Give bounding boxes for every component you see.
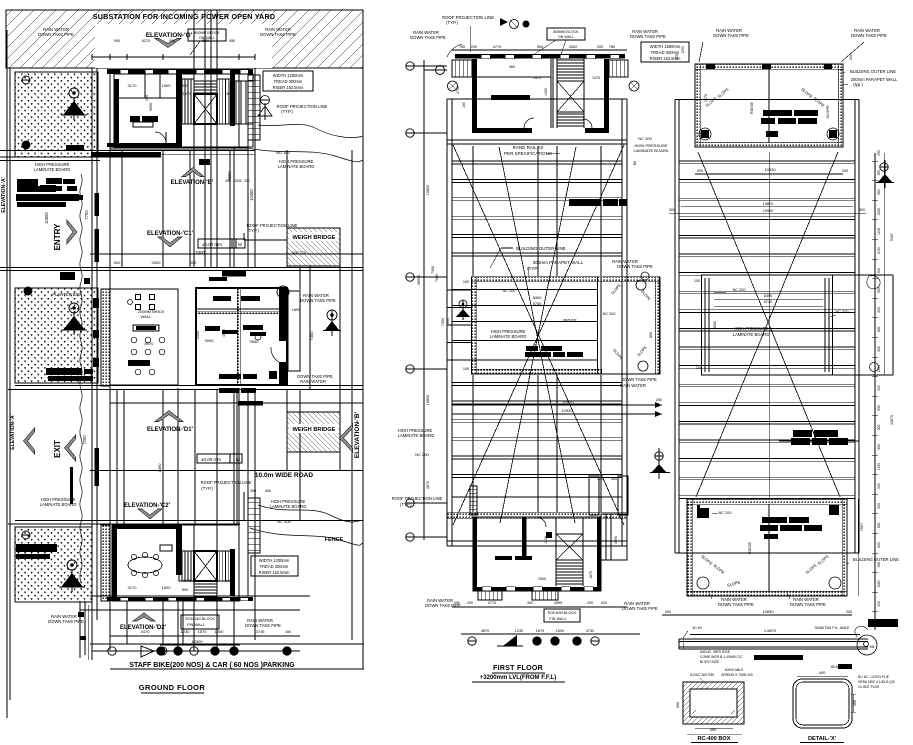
ff bottom room stair shaft	[556, 534, 583, 560]
stair data box bottom right	[251, 556, 298, 576]
svg-text:EXIT: EXIT	[53, 440, 62, 458]
svg-text:200: 200	[842, 169, 848, 173]
svg-text:10460: 10460	[249, 189, 254, 201]
planter P3 tree	[67, 560, 77, 570]
first floor louver lines lower	[452, 382, 622, 384]
right top room wall black marks	[706, 64, 715, 69]
svg-text:7300: 7300	[431, 266, 435, 274]
svg-text:1550: 1550	[877, 365, 881, 373]
svg-text:WIDTH 1200mm: WIDTH 1200mm	[273, 73, 304, 78]
svg-text:PLANTER BOX: PLANTER BOX	[52, 292, 82, 297]
ff left corner strip	[470, 486, 477, 515]
svg-text:300: 300	[190, 260, 197, 265]
black rect below entry	[60, 272, 75, 280]
svg-text:4870: 4870	[481, 629, 489, 633]
black bar above weigh bridge 2	[238, 401, 263, 406]
svg-text:500: 500	[114, 260, 121, 265]
first floor louver lines upper	[452, 160, 622, 162]
svg-text:AIB NC. WER RISE: AIB NC. WER RISE	[700, 650, 731, 654]
NC bar right of P1	[66, 145, 84, 151]
svg-text:DOWN TAKE PIPE: DOWN TAKE PIPE	[38, 32, 74, 37]
ff bottom room door arc	[536, 517, 546, 527]
elevation B' arrow	[340, 424, 353, 452]
top room stair shaft	[194, 94, 217, 124]
svg-text:10830: 10830	[764, 167, 776, 172]
svg-text:10600: 10600	[44, 212, 49, 224]
roof projection curve top	[258, 124, 363, 137]
site line y403	[110, 402, 363, 404]
north arrow bottom	[141, 646, 154, 657]
right plan centre vertical line	[768, 152, 770, 499]
ff rain pipe circle middle room corner	[641, 272, 649, 280]
svg-text:BLI NC. LATEN PLIE: BLI NC. LATEN PLIE	[858, 675, 890, 679]
roof projection marker circled	[261, 96, 270, 105]
bike parking strip below top room	[110, 147, 248, 149]
svg-text:DOWN TAKE PIPE: DOWN TAKE PIPE	[630, 34, 666, 39]
svg-text:DOWN TAKE PIPE: DOWN TAKE PIPE	[790, 602, 826, 607]
svg-text:(TYP.): (TYP.)	[446, 20, 458, 25]
svg-text:7200: 7200	[82, 435, 87, 445]
svg-text:7300: 7300	[441, 318, 445, 326]
right top room black bar cluster	[763, 110, 792, 116]
svg-text:400: 400	[819, 670, 826, 675]
svg-text:500: 500	[676, 702, 680, 708]
long section right circle	[857, 635, 877, 655]
roof projection curves lower	[258, 505, 363, 522]
left grid bubble symbol for right plan	[880, 163, 888, 171]
right ladder strip	[248, 75, 260, 140]
svg-text:BUILDING OUTER LINE: BUILDING OUTER LINE	[850, 69, 896, 74]
mid block top bars	[222, 271, 246, 277]
ff circled-x right	[629, 81, 639, 91]
svg-text:FIRST FLOOR: FIRST FLOOR	[493, 665, 543, 672]
weigh bridge box 1	[287, 228, 340, 266]
office chairs and tables upper	[136, 295, 141, 300]
ff left grid bubbles	[406, 62, 414, 70]
right middle box inner verticals	[704, 278, 706, 372]
facade black bar at x95 lower	[95, 448, 100, 486]
svg-text:ROOF PROJECTION LINE: ROOF PROJECTION LINE	[392, 496, 443, 501]
svg-text:DOWN TAKE PIPE: DOWN TAKE PIPE	[48, 619, 84, 624]
svg-text:300: 300	[877, 150, 881, 156]
svg-text:100: 100	[696, 366, 702, 370]
svg-text:160: 160	[285, 630, 291, 634]
svg-text:1500: 1500	[538, 577, 546, 581]
top room outer walls	[107, 69, 253, 74]
svg-text:4770: 4770	[493, 45, 501, 49]
svg-text:±0.00 mm: ±0.00 mm	[201, 457, 221, 462]
elevation C2 arrow	[138, 509, 162, 519]
svg-text:4000: 4000	[222, 329, 226, 337]
svg-text:13920: 13920	[562, 399, 574, 404]
right middle box circle	[870, 363, 879, 372]
svg-text:800: 800	[877, 542, 881, 548]
svg-text:OL BNT PLOE: OL BNT PLOE	[858, 685, 880, 689]
svg-text:TREAD 300mm: TREAD 300mm	[274, 79, 303, 84]
svg-text:500: 500	[181, 83, 188, 88]
svg-text:DOWN TAKE PIPE: DOWN TAKE PIPE	[260, 32, 296, 37]
svg-text:300: 300	[877, 268, 881, 274]
svg-text:SODIUM BLOCK: SODIUM BLOCK	[547, 611, 577, 615]
svg-text:200: 200	[846, 610, 852, 614]
svg-text:ELEVATION-'C1': ELEVATION-'C1'	[147, 231, 194, 237]
svg-text:1000: 1000	[234, 179, 242, 183]
svg-text:6390: 6390	[764, 294, 772, 298]
svg-text:3170: 3170	[128, 585, 138, 590]
ff stair data box right	[641, 42, 689, 62]
svg-text:7667: 7667	[860, 523, 864, 531]
svg-text:A560: A560	[533, 296, 542, 300]
svg-text:1550: 1550	[877, 208, 881, 216]
mid block right rooms outline	[196, 288, 287, 385]
long section black blob right	[868, 619, 898, 627]
svg-text:800MM BLOCK: 800MM BLOCK	[553, 30, 579, 34]
long section detail bar	[679, 638, 868, 640]
window gaps bottom wall	[120, 598, 128, 601]
grid bubble left P1a	[22, 76, 30, 84]
ff middle room divider	[597, 277, 599, 374]
svg-text:300: 300	[597, 477, 603, 481]
svg-text:1100: 1100	[877, 247, 881, 254]
svg-text:3730: 3730	[586, 629, 594, 633]
ff top room stair shaft	[557, 81, 584, 112]
svg-text:3000: 3000	[205, 338, 215, 343]
svg-text:1500: 1500	[162, 83, 172, 88]
svg-text:BI 5TH SIZE: BI 5TH SIZE	[700, 660, 720, 664]
mid rooms inner dotted walls	[237, 288, 241, 385]
svg-text:WIDTH 1200mm: WIDTH 1200mm	[259, 558, 290, 563]
svg-text:SLOPE: SLOPE	[825, 105, 830, 119]
svg-text:NO 300: NO 300	[276, 150, 291, 155]
svg-text:300: 300	[527, 601, 533, 605]
svg-text:10600: 10600	[426, 395, 430, 406]
svg-text:1600: 1600	[162, 585, 172, 590]
planter P2 tree	[69, 303, 79, 313]
svg-text:1200: 1200	[681, 46, 685, 54]
black rect above elevation B	[199, 159, 210, 165]
svg-text:RIDGE: RIDGE	[750, 102, 754, 114]
bottom room stair right treads	[217, 551, 231, 581]
ff north arrow bottom	[503, 635, 517, 646]
top room interior partition lines	[119, 97, 176, 99]
svg-text:780: 780	[609, 45, 615, 49]
right bottom room corner pipes	[697, 577, 709, 589]
first floor big X diagonals	[453, 145, 624, 525]
svg-text:160: 160	[462, 102, 466, 108]
svg-text:9750: 9750	[533, 302, 541, 306]
ff top room inner wall	[550, 58, 552, 128]
svg-text:100: 100	[694, 279, 700, 283]
ff middle room inner lines	[452, 289, 597, 291]
svg-text:1475: 1475	[225, 579, 233, 583]
svg-text:DOWN TAKE PIPE: DOWN TAKE PIPE	[621, 377, 657, 382]
ff top room window gaps	[481, 55, 490, 59]
svg-text:13870: 13870	[763, 202, 774, 206]
svg-text:475: 475	[226, 92, 232, 96]
facade black marks mid block	[93, 298, 99, 308]
svg-text:7000: 7000	[446, 318, 450, 326]
svg-text:300M RAI FIL. ABLE: 300M RAI FIL. ABLE	[814, 626, 849, 630]
ff tree symbol left of middle room	[459, 300, 467, 308]
svg-text:HEBU NRC 4 100LB Q/E: HEBU NRC 4 100LB Q/E	[858, 680, 896, 684]
first floor louver frame	[446, 99, 448, 546]
svg-text:(TYP.): (TYP.)	[201, 486, 213, 491]
svg-text:800: 800	[877, 424, 881, 430]
svg-text:36940: 36940	[417, 275, 421, 286]
svg-text:WIDTH 1500mm: WIDTH 1500mm	[650, 44, 681, 49]
svg-text:3470: 3470	[704, 94, 708, 102]
svg-text:NC 200: NC 200	[415, 452, 429, 457]
right side dim chain	[874, 153, 876, 630]
sodium block fin wall box	[181, 615, 219, 629]
svg-text:ELEVATION-'B': ELEVATION-'B'	[171, 180, 214, 186]
black text-bar cluster B	[46, 368, 82, 375]
grid bubble left P3	[22, 531, 30, 539]
right boundary of ground floor plan	[362, 68, 364, 669]
top room stair right treads	[217, 79, 231, 124]
svg-text:DOWN TAKE PIPE: DOWN TAKE PIPE	[851, 33, 887, 38]
svg-text:33870: 33870	[890, 415, 894, 425]
svg-text:900 775: 900 775	[292, 251, 306, 255]
svg-text:350: 350	[225, 179, 231, 183]
black text-bar cluster A	[17, 179, 38, 192]
RC-400 BOX detail	[683, 682, 744, 724]
svg-text:DOWN TAKE PIPE: DOWN TAKE PIPE	[713, 33, 749, 38]
svg-text:300: 300	[859, 208, 865, 212]
svg-text:RISER 152.5mm: RISER 152.5mm	[273, 85, 304, 90]
elevation D2 label	[133, 613, 155, 621]
svg-text:GROUND FLOOR: GROUND FLOOR	[139, 683, 206, 692]
svg-text:200: 200	[665, 610, 671, 614]
svg-text:BUILDING OUTER LINE: BUILDING OUTER LINE	[853, 557, 899, 562]
svg-text:TREAD 300mm: TREAD 300mm	[260, 564, 289, 569]
ff sodium block fin wall box	[544, 609, 580, 622]
svg-text:5187: 5187	[890, 233, 894, 241]
right bottom room black bar cluster	[762, 517, 787, 523]
svg-text:500: 500	[182, 588, 188, 592]
svg-text:DOWN TAKE PIPE: DOWN TAKE PIPE	[245, 623, 281, 628]
svg-text:7000: 7000	[435, 274, 439, 282]
svg-text:ELEVATION-'O': ELEVATION-'O'	[146, 32, 193, 39]
svg-text:RIDGE: RIDGE	[748, 542, 752, 554]
ff bottom stair treads	[556, 562, 583, 564]
svg-text:LAMINATE BOARD: LAMINATE BOARD	[270, 504, 307, 509]
svg-text:COME WER B 1-40MM C/C: COME WER B 1-40MM C/C	[700, 655, 743, 659]
svg-text:NC 200: NC 200	[836, 310, 849, 314]
svg-text:LAMINATE BOARD: LAMINATE BOARD	[733, 332, 770, 337]
svg-text:RC-400 BOX: RC-400 BOX	[698, 736, 731, 742]
top room stair treads left	[179, 79, 194, 124]
svg-text:13300: 13300	[191, 639, 203, 644]
svg-text:(TYP): (TYP)	[527, 266, 539, 271]
svg-text:1475: 1475	[592, 76, 600, 80]
ff top markers	[500, 18, 508, 26]
mid room furniture bars	[213, 296, 231, 301]
right plan louver lines	[679, 160, 855, 162]
svg-text:200: 200	[597, 45, 603, 49]
svg-text:NC 300: NC 300	[277, 519, 291, 524]
svg-text:lvl: lvl	[238, 242, 242, 247]
svg-text:950: 950	[877, 346, 881, 352]
right middle open box	[702, 275, 833, 375]
svg-text:200: 200	[849, 54, 853, 60]
svg-text:BUILDING OUTER LINE: BUILDING OUTER LINE	[516, 246, 566, 251]
svg-text:+3200mm LVL(FROM F.F.L): +3200mm LVL(FROM F.F.L)	[480, 675, 556, 681]
ff stair treads above	[557, 59, 584, 61]
planter box P3	[15, 527, 92, 602]
bottom room stair treads left	[179, 551, 194, 581]
svg-text:M6: M6	[870, 645, 875, 649]
svg-text:950: 950	[877, 522, 881, 528]
bottom room treads below shaft	[194, 581, 217, 597]
svg-text:3300: 3300	[152, 260, 162, 265]
svg-text:4470: 4470	[141, 629, 151, 634]
svg-text:ELEVATION-'A': ELEVATION-'A'	[10, 414, 16, 450]
mid room bottom bars	[219, 374, 241, 379]
top room door arc	[155, 132, 166, 143]
svg-text:FIN WALL: FIN WALL	[549, 617, 566, 621]
svg-text:4750: 4750	[456, 86, 460, 94]
svg-text:DOWN TAKE PIPE: DOWN TAKE PIPE	[718, 602, 754, 607]
svg-text:1675: 1675	[589, 571, 593, 579]
ff 800mm block box	[547, 28, 585, 40]
black bar cluster C on planter	[16, 544, 57, 552]
long section black bar below	[754, 655, 803, 660]
ff middle room side circles	[636, 280, 646, 290]
svg-text:ELEVATION-'A': ELEVATION-'A'	[1, 177, 7, 213]
svg-text:6270: 6270	[142, 39, 150, 43]
weigh bridge box 2	[287, 412, 340, 452]
svg-text:10600: 10600	[426, 185, 430, 196]
svg-text:LAMINATE BOARD: LAMINATE BOARD	[40, 502, 77, 507]
ENTRY arrow	[67, 220, 77, 244]
main vertical grid lines ground floor	[91, 68, 93, 660]
svg-text:1230: 1230	[181, 629, 191, 634]
svg-text:10.0m WIDE ROAD: 10.0m WIDE ROAD	[255, 472, 313, 479]
svg-text:(typ.): (typ.)	[853, 82, 863, 87]
svg-text:85 400: 85 400	[831, 665, 841, 669]
svg-text:LAMINATE BOARD: LAMINATE BOARD	[398, 433, 435, 438]
right plan big X diagonal	[698, 152, 840, 497]
svg-text:1855: 1855	[292, 308, 300, 312]
svg-text:1550: 1550	[877, 580, 881, 588]
svg-text:3170: 3170	[128, 83, 138, 88]
svg-text:500: 500	[669, 208, 675, 212]
svg-text:RAND RAIL AS: RAND RAIL AS	[513, 145, 544, 150]
svg-text:WEIGH BRIDGE: WEIGH BRIDGE	[293, 235, 336, 241]
bottom room outer walls	[112, 525, 239, 601]
svg-text:NC 200: NC 200	[638, 136, 652, 141]
right top room walls dotted	[695, 64, 843, 147]
bottom room small rect	[160, 545, 172, 551]
right bottom room walls	[687, 499, 847, 596]
ff bottom room walls	[473, 517, 601, 591]
svg-text:200: 200	[471, 45, 477, 49]
stair data box top right	[263, 71, 313, 91]
grid bubble left P1b	[22, 141, 30, 149]
svg-text:LAMINATE BOARD: LAMINATE BOARD	[633, 148, 668, 153]
substation open yard hatched band	[6, 10, 363, 68]
svg-text:100: 100	[463, 280, 469, 284]
ff bottom grid bubbles	[468, 637, 476, 645]
svg-text:1400: 1400	[544, 536, 548, 544]
svg-text:1475: 1475	[183, 579, 191, 583]
right ladder strip lower	[248, 498, 260, 553]
svg-text:(TYP.): (TYP.)	[247, 228, 259, 233]
top room window gaps on top wall	[120, 70, 128, 74]
svg-text:200: 200	[467, 601, 473, 605]
svg-text:SUBSTATION FOR INCOMING POWER: SUBSTATION FOR INCOMING POWER OPEN YARD	[93, 12, 275, 21]
svg-text:200: 200	[587, 601, 593, 605]
top room stair treads above shaft	[194, 80, 217, 82]
svg-text:RAIN WATER: RAIN WATER	[620, 383, 646, 388]
facade black bars at x95	[95, 193, 100, 216]
svg-text:4695: 4695	[614, 536, 618, 544]
left site boundary lines	[6, 30, 8, 718]
right plan louver frame	[674, 100, 676, 554]
ff bottom side sill boxes	[478, 591, 502, 600]
top room right wing	[230, 81, 253, 124]
bottom-left facade verticals	[79, 601, 81, 658]
svg-text:300mm PARAPET WALL: 300mm PARAPET WALL	[533, 260, 584, 265]
svg-text:13920: 13920	[763, 209, 774, 213]
svg-text:300: 300	[877, 385, 881, 391]
svg-text:lvl: lvl	[236, 457, 240, 462]
elevation B label	[182, 168, 204, 177]
right black bar cluster lower	[793, 430, 812, 437]
svg-text:RIDGE: RIDGE	[563, 318, 576, 323]
ff top room partition line	[477, 76, 551, 78]
svg-text:950: 950	[877, 405, 881, 411]
ff top room walls	[455, 54, 625, 59]
right grid bubble symbols mid	[655, 452, 663, 460]
svg-text:950: 950	[877, 444, 881, 450]
svg-text:7700: 7700	[84, 210, 89, 220]
svg-text:950: 950	[877, 189, 881, 195]
svg-text:LAMINATE BOARD: LAMINATE BOARD	[278, 164, 315, 169]
svg-text:NC 200: NC 200	[503, 289, 516, 293]
svg-text:HIGH PRESSURE: HIGH PRESSURE	[734, 326, 769, 331]
office chairs lower	[135, 369, 141, 375]
ff bottom parapet dotted band	[447, 513, 627, 519]
svg-text:14920: 14920	[561, 408, 573, 413]
dim tick line below band	[92, 56, 255, 58]
svg-text:8970: 8970	[145, 341, 155, 346]
planter P1 tree	[69, 88, 79, 98]
svg-text:40 40: 40 40	[692, 626, 702, 630]
elevation C1 arrow	[158, 237, 182, 247]
bottom room oval table	[128, 557, 162, 573]
svg-text:300: 300	[877, 601, 881, 607]
svg-text:800: 800	[877, 326, 881, 332]
mid room dotted left wall	[101, 289, 110, 386]
DETAIL-X rounded square	[793, 679, 852, 728]
svg-text:B6: B6	[633, 161, 637, 165]
svg-text:ELEVATION-'D1': ELEVATION-'D1'	[147, 427, 194, 433]
right top room centre line	[768, 69, 770, 142]
svg-text:450: 450	[265, 489, 271, 493]
first floor grid verticals through louvers	[472, 146, 474, 276]
planter P1 bottom boundary	[0, 156, 100, 158]
elevation D1 label	[155, 411, 183, 422]
svg-text:800MM BLOCK: 800MM BLOCK	[194, 31, 220, 35]
svg-text:ON WALL: ON WALL	[199, 36, 215, 40]
svg-text:300: 300	[244, 179, 250, 183]
svg-text:PER SPECIFICATIONS: PER SPECIFICATIONS	[504, 151, 552, 156]
svg-text:800: 800	[649, 332, 653, 338]
right bottom room NC200 blob	[697, 508, 709, 518]
EXIT arrow	[65, 435, 76, 461]
